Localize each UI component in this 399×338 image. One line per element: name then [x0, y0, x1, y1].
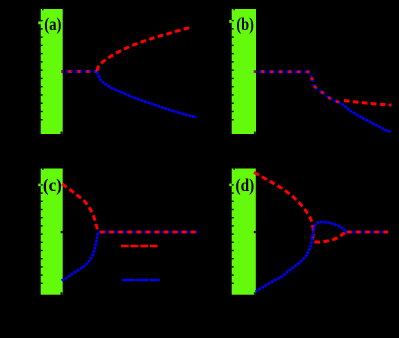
svg-text:(a): (a): [44, 14, 61, 35]
svg-text:(c): (c): [43, 175, 62, 196]
svg-text:(d): (d): [236, 175, 255, 196]
svg-text:(b): (b): [236, 14, 254, 35]
